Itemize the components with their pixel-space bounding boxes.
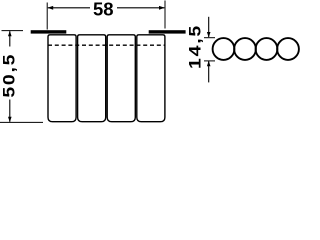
dimension 58: dimension line right segment with arrow	[117, 6, 165, 10]
top-view circle 2	[234, 38, 256, 60]
right solder tab	[149, 31, 185, 34]
dimension 50,5: top witness line	[2, 30, 24, 32]
dimension 58: dimension line left segment with arrow	[47, 6, 90, 10]
top-view circle 1	[213, 38, 235, 60]
svg-text:58: 58	[93, 0, 114, 20]
cell 2	[78, 35, 106, 122]
dimension 14,5: upper dimension line with down arrow	[207, 17, 211, 38]
dimension 50,5: lower dimension line segment with down arrow	[8, 100, 12, 123]
left solder tab	[31, 31, 66, 34]
dimension 50,5: upper dimension line segment with up arrow	[8, 31, 12, 47]
hidden (dashed) line across cells	[48, 44, 165, 46]
cell 1 (front view rounded rect)	[48, 35, 76, 122]
dimension 14,5: top witness tick	[204, 37, 215, 39]
dimension 58: left witness line	[46, 3, 48, 30]
dimension 50,5: bottom witness line	[0, 121, 43, 123]
dimension 14,5: lower dimension line with up arrow	[207, 61, 211, 83]
cell 4	[137, 35, 165, 122]
cell 3	[107, 35, 135, 122]
dimension 14,5: bottom witness tick	[204, 60, 215, 62]
svg-text:14,5: 14,5	[186, 24, 204, 69]
top-view circle 4	[277, 38, 299, 60]
svg-text:50,5: 50,5	[0, 53, 18, 98]
dimension 58: right witness line	[164, 1, 166, 29]
top-view circle 3	[256, 38, 278, 60]
